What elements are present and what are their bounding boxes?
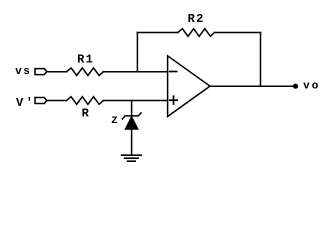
op-amp U1 <box>168 56 210 117</box>
svg-text:Z: Z <box>111 115 118 127</box>
zener diode Z cathode bar <box>122 113 141 119</box>
node vo dot <box>293 84 298 89</box>
wire op-amp output <box>210 85 296 87</box>
wire vs port to R1 <box>47 71 67 73</box>
resistor R <box>67 97 104 105</box>
zener diode Z anode triangle <box>125 116 138 129</box>
svg-text:V': V' <box>16 96 36 110</box>
resistor R1 <box>67 68 104 76</box>
port vs <box>35 69 47 75</box>
wire zener to ground <box>131 129 133 156</box>
op-amp minus pin mark <box>170 71 177 73</box>
wire zener tap vertical <box>131 101 133 116</box>
port V' <box>35 98 47 104</box>
wire feedback top left <box>137 32 177 34</box>
wire V' port to R <box>47 100 67 102</box>
svg-text:R: R <box>82 107 90 121</box>
wire feedback tap vertical <box>136 33 138 72</box>
op-amp plus pin mark <box>170 99 177 101</box>
wire R1 to op-amp inverting input <box>103 71 167 73</box>
wire feedback right vertical <box>260 33 262 87</box>
wire R to op-amp non-inverting input <box>103 100 167 102</box>
svg-text:vs: vs <box>15 66 31 78</box>
resistor R2 <box>178 29 215 37</box>
wire feedback top right <box>215 32 261 34</box>
svg-text:R2: R2 <box>188 12 205 26</box>
ground <box>122 154 142 156</box>
svg-text:R1: R1 <box>77 53 94 67</box>
svg-text:vo: vo <box>303 80 320 92</box>
